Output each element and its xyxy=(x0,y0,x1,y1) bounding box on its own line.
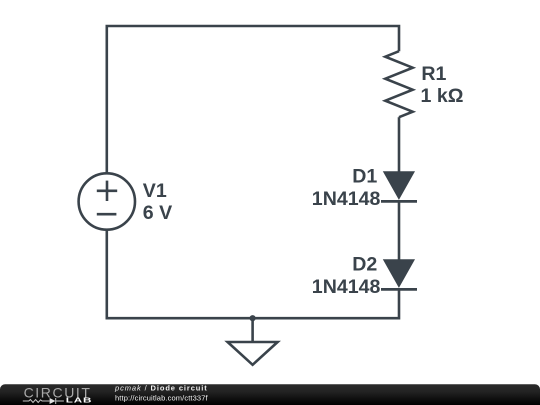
wire: D2 down, bottom rail, left rail up to V1 xyxy=(107,230,399,319)
wire: R1 to D1 xyxy=(398,117,401,172)
wire: ground stem xyxy=(251,318,254,342)
svg-text:D1: D1 xyxy=(352,166,377,188)
svg-text:V1: V1 xyxy=(143,180,167,202)
diode D1 xyxy=(381,171,417,201)
svg-text:1N4148: 1N4148 xyxy=(312,188,381,210)
logo LAB text xyxy=(66,397,92,405)
resistor R1 xyxy=(385,51,412,117)
svg-text:R1: R1 xyxy=(421,63,446,85)
svg-text:6 V: 6 V xyxy=(143,202,172,224)
wire: D1 to D2 xyxy=(398,202,401,261)
node: bottom-rail ground junction xyxy=(250,315,256,321)
logo diode glyph xyxy=(50,398,56,404)
svg-text:http://circuitlab.com/ctt337f: http://circuitlab.com/ctt337f xyxy=(115,394,208,403)
svg-text:LAB: LAB xyxy=(66,397,92,405)
svg-text:pcmak / Diode circuit: pcmak / Diode circuit xyxy=(114,384,208,393)
wire: left rail up, top rail, right rail down to R1 xyxy=(107,26,399,174)
voltage source V1 xyxy=(79,173,135,229)
svg-text:D2: D2 xyxy=(352,254,377,276)
svg-text:1 kΩ: 1 kΩ xyxy=(421,85,464,107)
ground xyxy=(228,342,278,365)
logo resistor squiggle xyxy=(23,398,64,404)
svg-text:1N4148: 1N4148 xyxy=(312,276,381,298)
diode D2 xyxy=(381,259,417,289)
